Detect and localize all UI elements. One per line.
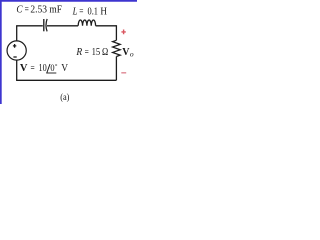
svg-text:(a): (a) [60, 92, 69, 103]
svg-text:=: = [31, 63, 35, 74]
svg-text:L=0.1H: L=0.1H [72, 6, 108, 17]
inductor L [78, 20, 95, 26]
wire right rail upper [115, 25, 117, 40]
wire left rail bottom (source bottom to bottom-left corner) [16, 60, 18, 80]
wire left rail top (source top to top-left corner) [16, 26, 18, 41]
svg-text:°: ° [55, 63, 58, 70]
capacitor C [44, 19, 47, 32]
wire top rail middle segment [47, 25, 78, 27]
plus mark output [121, 30, 125, 35]
minus mark output [121, 72, 126, 74]
wire top rail right segment [96, 25, 117, 27]
wire top rail left segment [16, 25, 43, 27]
svg-text:R=15Ω: R=15Ω [76, 47, 109, 58]
voltage source V [7, 41, 26, 60]
resistor R [113, 40, 121, 56]
svg-text:o: o [130, 50, 134, 59]
svg-text:10: 10 [39, 63, 47, 74]
svg-text:V: V [20, 63, 28, 74]
svg-text:V: V [61, 63, 68, 74]
label Vo output [122, 47, 134, 59]
wire bottom rail [16, 79, 116, 81]
wire right rail lower [115, 57, 117, 81]
label V = 10/0deg V [20, 63, 69, 74]
